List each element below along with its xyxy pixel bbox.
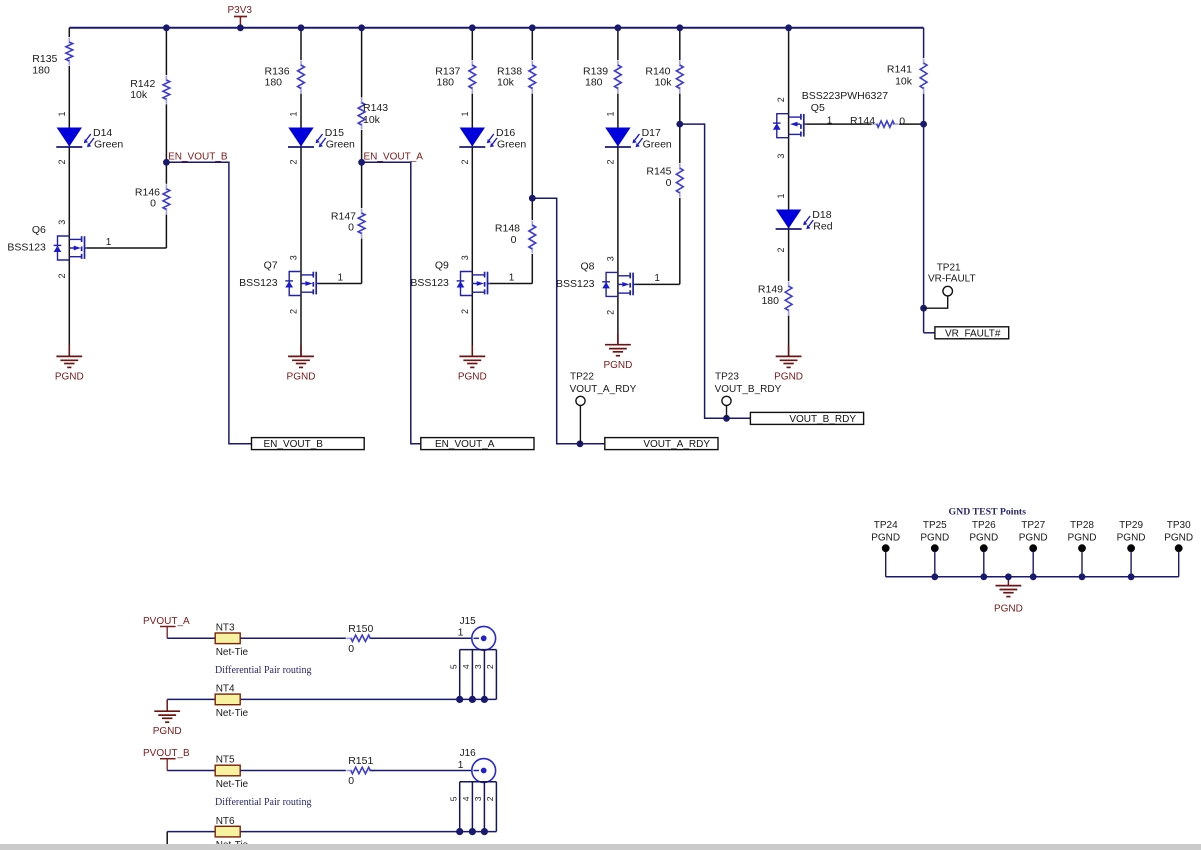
svg-text:VR_FAULT#: VR_FAULT# (945, 328, 1001, 339)
svg-text:2: 2 (605, 310, 615, 315)
svg-text:Net-Tie: Net-Tie (216, 647, 249, 658)
svg-text:NT6: NT6 (216, 816, 235, 827)
svg-text:10k: 10k (363, 114, 381, 126)
svg-text:Q7: Q7 (264, 260, 278, 272)
svg-text:TP30: TP30 (1167, 520, 1191, 531)
svg-text:4: 4 (461, 796, 471, 801)
svg-text:PGND: PGND (1019, 533, 1048, 544)
svg-text:R145: R145 (646, 166, 671, 178)
svg-text:2: 2 (776, 97, 786, 102)
svg-text:EN_VOUT_B: EN_VOUT_B (168, 151, 228, 162)
svg-text:R135: R135 (32, 53, 57, 65)
svg-text:TP22: TP22 (570, 372, 594, 383)
svg-text:0: 0 (348, 643, 354, 655)
svg-text:R143: R143 (363, 102, 388, 114)
svg-text:PGND: PGND (458, 372, 487, 383)
svg-text:Q9: Q9 (435, 260, 449, 272)
svg-text:J16: J16 (460, 748, 477, 759)
svg-text:BSS123: BSS123 (7, 242, 46, 254)
svg-text:PVOUT_A: PVOUT_A (143, 616, 190, 627)
svg-text:3: 3 (289, 255, 299, 260)
svg-text:PGND: PGND (287, 372, 316, 383)
svg-text:PGND: PGND (994, 604, 1023, 615)
svg-text:Differential Pair routing: Differential Pair routing (215, 797, 311, 808)
svg-text:Green: Green (94, 139, 123, 151)
svg-text:R144: R144 (850, 115, 875, 127)
svg-text:VOUT_B_RDY: VOUT_B_RDY (715, 384, 782, 395)
svg-text:Green: Green (643, 139, 672, 151)
svg-text:Net-Tie: Net-Tie (216, 708, 249, 719)
svg-text:VOUT_A_RDY: VOUT_A_RDY (570, 384, 637, 395)
svg-text:GND TEST Points: GND TEST Points (949, 507, 1027, 518)
svg-text:4: 4 (461, 664, 471, 669)
svg-text:TP27: TP27 (1021, 520, 1045, 531)
svg-text:2: 2 (776, 247, 786, 252)
svg-text:1: 1 (509, 272, 515, 283)
svg-text:3: 3 (776, 154, 786, 159)
svg-text:PGND: PGND (1117, 533, 1146, 544)
svg-text:1: 1 (458, 627, 464, 639)
svg-text:TP21: TP21 (937, 263, 961, 274)
svg-text:PGND: PGND (774, 372, 803, 383)
svg-text:PVOUT_B: PVOUT_B (143, 748, 190, 759)
svg-text:VR-FAULT: VR-FAULT (928, 274, 976, 285)
svg-text:180: 180 (585, 77, 603, 89)
svg-text:Net-Tie: Net-Tie (216, 779, 249, 790)
svg-text:R150: R150 (348, 623, 373, 635)
svg-text:PGND: PGND (920, 533, 949, 544)
svg-text:TP23: TP23 (715, 372, 739, 383)
svg-text:180: 180 (265, 77, 283, 89)
svg-text:3: 3 (460, 255, 470, 260)
svg-text:Q8: Q8 (580, 260, 594, 272)
svg-text:TP26: TP26 (972, 520, 996, 531)
svg-text:EN_VOUT_B: EN_VOUT_B (264, 439, 324, 450)
svg-text:Red: Red (813, 221, 832, 233)
svg-text:TP24: TP24 (874, 520, 898, 531)
svg-text:1: 1 (57, 111, 67, 116)
svg-text:Green: Green (326, 139, 355, 151)
svg-text:0: 0 (348, 222, 354, 234)
svg-text:BSS223PWH6327: BSS223PWH6327 (802, 90, 889, 102)
svg-text:10k: 10k (130, 89, 148, 101)
svg-text:0: 0 (899, 116, 905, 128)
svg-text:PGND: PGND (603, 360, 632, 371)
svg-text:1: 1 (460, 111, 470, 116)
svg-text:PGND: PGND (153, 726, 182, 737)
svg-text:NT5: NT5 (216, 755, 235, 766)
svg-text:1: 1 (289, 111, 299, 116)
svg-text:1: 1 (827, 116, 833, 127)
svg-text:2: 2 (460, 309, 470, 314)
svg-text:EN_VOUT_A: EN_VOUT_A (364, 151, 424, 162)
svg-text:P3V3: P3V3 (228, 5, 253, 16)
svg-text:5: 5 (448, 796, 458, 801)
svg-text:NT4: NT4 (216, 684, 235, 695)
svg-text:R141: R141 (887, 64, 912, 76)
svg-text:D18: D18 (812, 209, 831, 221)
svg-text:1: 1 (654, 273, 660, 284)
svg-text:BSS123: BSS123 (239, 277, 278, 289)
svg-text:R151: R151 (348, 755, 373, 767)
svg-text:3: 3 (473, 796, 483, 801)
svg-text:TP29: TP29 (1119, 520, 1143, 531)
svg-text:D17: D17 (642, 127, 661, 139)
svg-text:R149: R149 (758, 284, 783, 296)
svg-text:1: 1 (338, 272, 344, 283)
svg-text:2: 2 (289, 159, 299, 164)
svg-text:PGND: PGND (969, 533, 998, 544)
svg-text:2: 2 (57, 273, 67, 278)
svg-text:180: 180 (437, 77, 455, 89)
svg-text:PGND: PGND (1164, 533, 1193, 544)
svg-text:R148: R148 (495, 223, 520, 235)
svg-text:BSS123: BSS123 (556, 278, 595, 290)
svg-text:1: 1 (458, 759, 464, 771)
svg-text:2: 2 (460, 159, 470, 164)
svg-text:NT3: NT3 (216, 623, 235, 634)
svg-text:EN_VOUT_A: EN_VOUT_A (435, 439, 495, 450)
svg-text:TP25: TP25 (923, 520, 947, 531)
svg-text:PGND: PGND (871, 533, 900, 544)
svg-text:Green: Green (497, 139, 526, 151)
svg-text:180: 180 (32, 65, 50, 77)
svg-text:0: 0 (150, 198, 156, 210)
svg-text:2: 2 (289, 309, 299, 314)
svg-text:10k: 10k (655, 77, 673, 89)
svg-text:Differential Pair routing: Differential Pair routing (215, 665, 311, 676)
svg-text:2: 2 (57, 159, 67, 164)
svg-text:VOUT_A_RDY: VOUT_A_RDY (643, 439, 710, 450)
svg-text:3: 3 (605, 256, 615, 261)
svg-text:R146: R146 (135, 187, 160, 199)
svg-text:TP28: TP28 (1070, 520, 1094, 531)
svg-text:PGND: PGND (55, 372, 84, 383)
svg-text:J15: J15 (460, 616, 477, 627)
svg-text:BSS123: BSS123 (410, 277, 449, 289)
svg-text:180: 180 (761, 295, 779, 307)
svg-text:1: 1 (776, 193, 786, 198)
svg-text:Q6: Q6 (32, 224, 46, 236)
svg-text:R142: R142 (130, 78, 155, 90)
svg-text:1: 1 (106, 237, 112, 248)
svg-text:PGND: PGND (1068, 533, 1097, 544)
svg-text:D14: D14 (93, 127, 112, 139)
svg-text:10k: 10k (895, 76, 913, 88)
svg-text:0: 0 (666, 177, 672, 189)
svg-text:2: 2 (485, 796, 495, 801)
svg-text:D16: D16 (496, 127, 515, 139)
svg-text:2: 2 (605, 159, 615, 164)
svg-text:5: 5 (448, 664, 458, 669)
svg-text:3: 3 (473, 664, 483, 669)
svg-text:Q5: Q5 (811, 102, 825, 114)
svg-text:3: 3 (57, 220, 67, 225)
svg-text:0: 0 (348, 775, 354, 787)
svg-text:0: 0 (511, 234, 517, 246)
svg-text:10k: 10k (497, 77, 515, 89)
svg-text:D15: D15 (325, 127, 344, 139)
svg-text:VOUT_B_RDY: VOUT_B_RDY (789, 414, 856, 425)
svg-text:1: 1 (605, 111, 615, 116)
svg-text:2: 2 (485, 664, 495, 669)
